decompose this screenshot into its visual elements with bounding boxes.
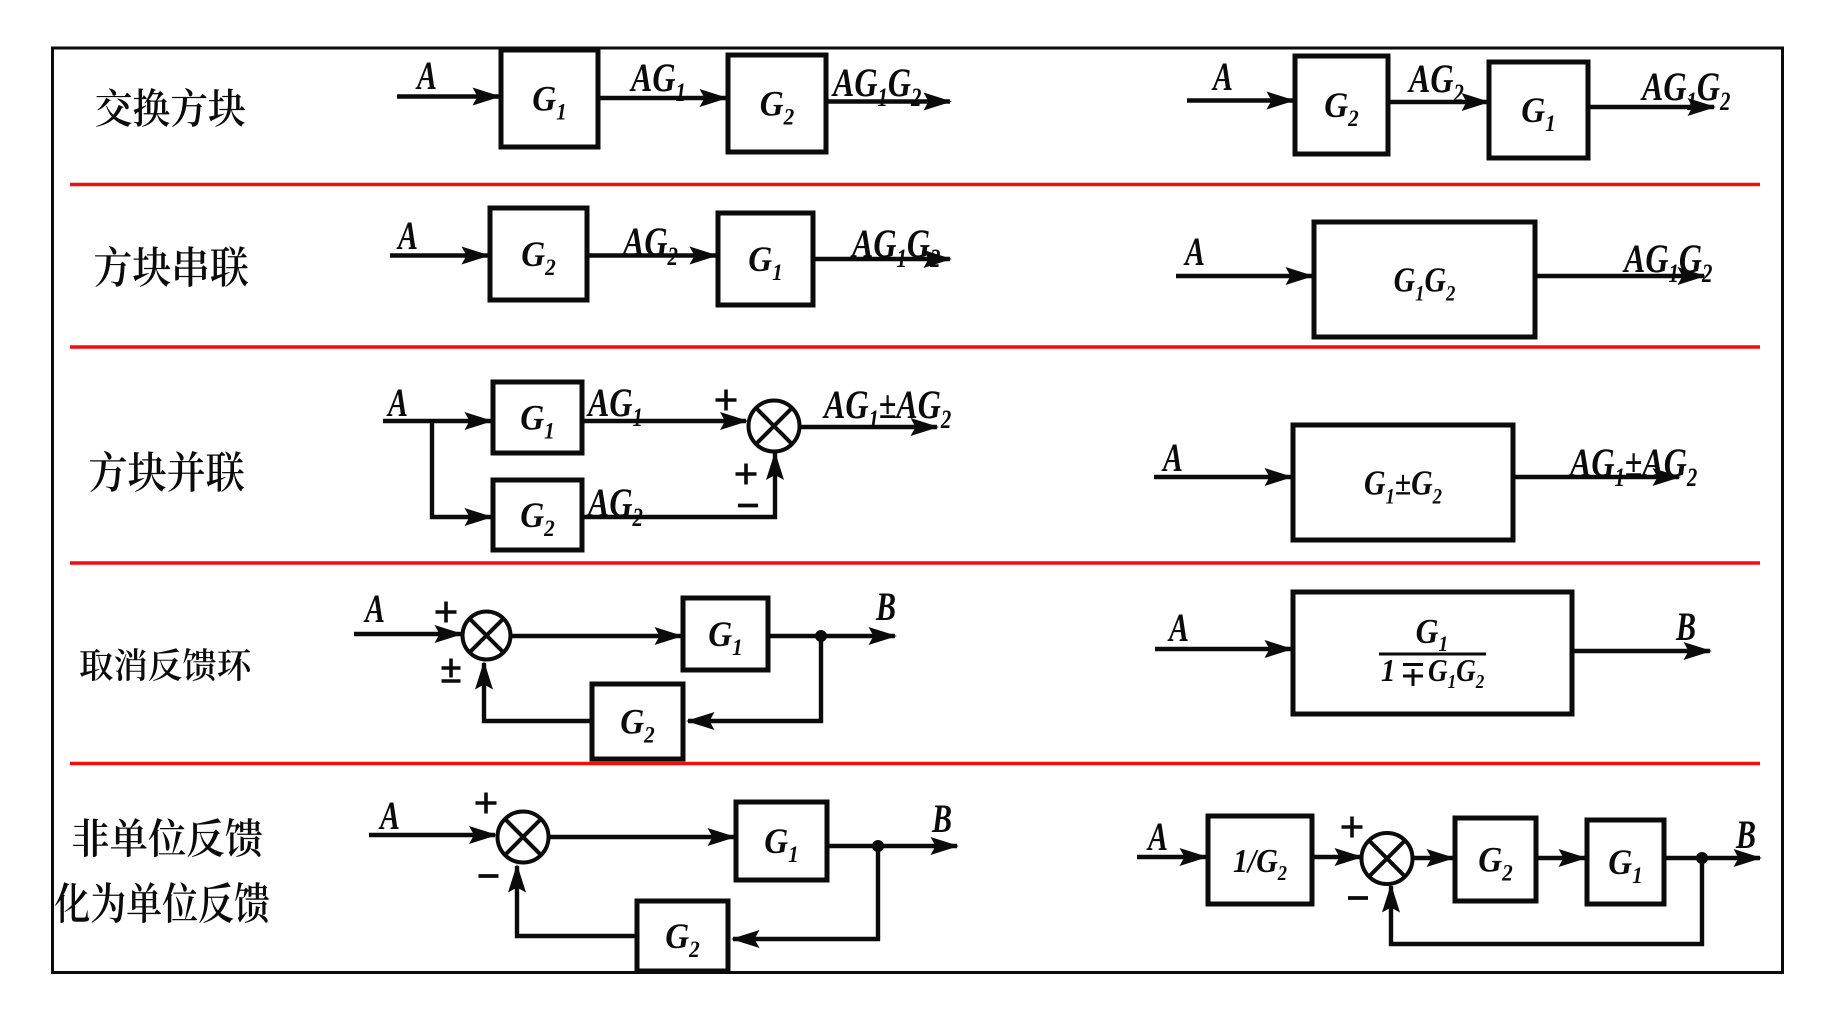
wire A to G2 (row2 left)	[390, 253, 488, 257]
node A (row2 right)	[1183, 229, 1205, 274]
row 5 label line 1: non-unity feedback	[73, 818, 262, 857]
net label AG1G2 (row1 right)	[1640, 65, 1730, 117]
arrowhead into G1 (row1 right)	[1462, 93, 1491, 111]
net label AG1 plus-minus AG2 (row3 left)	[822, 383, 951, 435]
svg-text:A: A	[1146, 814, 1168, 859]
svg-text:AG1G2: AG1G2	[831, 61, 921, 113]
arrowhead up into summing junction (row5 right)	[1382, 884, 1400, 913]
arrowhead into 1/G2 block (row5 right)	[1180, 848, 1209, 866]
junction node dot (row5 left)	[872, 840, 884, 852]
svg-text:G1±G2: G1±G2	[1364, 464, 1442, 509]
net label AG2 (row1 right)	[1407, 57, 1464, 109]
block G2 (row5 left)	[637, 901, 728, 971]
svg-text:AG1: AG1	[586, 381, 643, 433]
node B (row5 left)	[931, 796, 952, 841]
summing junction (row5 left)	[498, 812, 549, 863]
wire G2 to G1 (row5 right)	[1536, 856, 1585, 860]
arrowhead into G2 (row5 right)	[1427, 849, 1456, 867]
node A (row4 right)	[1167, 605, 1189, 650]
wire A to block (row3 right)	[1154, 475, 1291, 479]
red divider line 3	[70, 561, 1760, 564]
arrowhead into G2 right side (row5 left)	[731, 930, 760, 948]
block G1G2 (row2 right)	[1314, 222, 1535, 337]
row 4 label: eliminate feedback loop	[80, 648, 250, 681]
fraction denominator G1G2 (row4 right)	[1428, 654, 1484, 693]
node A (row1 right)	[1211, 54, 1233, 99]
node A (row5 right)	[1146, 814, 1168, 859]
wire G2 to G1 (row2 left)	[587, 253, 716, 257]
svg-text:AG1G2: AG1G2	[1622, 237, 1712, 289]
wire output (row2 left)	[813, 257, 950, 261]
arrowhead up into summing junction (row3 left)	[766, 452, 784, 481]
block G2 (row1 right)	[1295, 56, 1388, 154]
arrowhead into summing junction (row5 left)	[469, 826, 498, 844]
red divider line 2	[70, 345, 1760, 348]
wire G2 to summing junction (row3 left)	[582, 453, 775, 517]
block G2 (row1 left)	[728, 55, 826, 152]
output arrowhead (row5 left)	[931, 837, 960, 855]
plus sign (row5 right)	[1342, 817, 1363, 838]
row 2 label: blocks in series	[95, 246, 248, 287]
minus sign (row5 left)	[479, 874, 499, 878]
arrowhead into G2 (row1 right)	[1267, 92, 1296, 110]
node A (row3 right)	[1161, 435, 1183, 480]
net label AG1G2 (row1 left)	[831, 61, 921, 113]
node A (row1 left)	[415, 53, 437, 98]
arrowhead into G1 (row3 left)	[465, 412, 494, 430]
block G2 (row2 left)	[490, 208, 587, 300]
arrowhead up into summing junction (row4 left)	[475, 661, 493, 690]
block G1 (row2 left)	[718, 213, 813, 305]
plus-minus sign (row4 left)	[442, 659, 461, 682]
net label AG1G2 (row2 right)	[1622, 237, 1712, 289]
arrowhead into G1 (row5 right)	[1559, 849, 1588, 867]
output arrowhead (row3 right)	[1653, 468, 1682, 486]
node B (row4 right)	[1675, 604, 1696, 649]
summing junction (row5 right)	[1362, 833, 1413, 884]
block G2 (row4 left)	[592, 684, 683, 759]
junction node dot (row4 left)	[815, 630, 827, 642]
arrowhead into summing junction (row3 left)	[720, 412, 749, 430]
output arrowhead (row1 left)	[924, 93, 953, 111]
plus sign (row4 left)	[436, 602, 457, 623]
wire G2 to summing junction (row5 left)	[517, 866, 637, 936]
wire output (row3 right)	[1513, 475, 1679, 479]
net label AG2 (row3 left)	[586, 481, 643, 533]
plus sign (row5 left)	[476, 793, 497, 814]
svg-text:A: A	[378, 793, 400, 838]
wire output (row4 left)	[768, 634, 895, 638]
red divider line 4	[70, 762, 1760, 765]
svg-text:AG1±AG2: AG1±AG2	[822, 383, 951, 435]
wire A to summing junction (row5 left)	[369, 833, 495, 837]
arrowhead into G1 (row2 left)	[690, 247, 719, 265]
svg-text:AG2: AG2	[621, 220, 678, 272]
wire A to 1/G2 block (row5 right)	[1137, 855, 1206, 859]
net label AG1 plus-minus AG2 (row3 right)	[1568, 441, 1697, 493]
output arrowhead (row2 right)	[1678, 267, 1707, 285]
plus sign upper (row3 left)	[716, 390, 737, 411]
node B (row5 right)	[1735, 812, 1756, 857]
junction node dot (row5 right)	[1696, 852, 1708, 864]
wire G2 to G1 (row1 right)	[1388, 100, 1488, 104]
svg-text:A: A	[1161, 435, 1183, 480]
wire A to block (row2 right)	[1176, 274, 1312, 278]
wire summing junction to G1 (row4 left)	[509, 634, 681, 638]
arrowhead into block (row4 right)	[1265, 640, 1294, 658]
block closed-loop transfer function (row4 right)	[1293, 592, 1572, 714]
block G1 plus-minus G2 (row3 right)	[1293, 425, 1513, 540]
fraction numerator G1 (row4 right)	[1416, 613, 1449, 657]
node A (row4 left)	[363, 586, 385, 631]
row 3 label: blocks in parallel	[90, 451, 244, 492]
output arrowhead (row5 right)	[1734, 849, 1763, 867]
svg-text:A: A	[1211, 54, 1233, 99]
block G1 (row1 right)	[1489, 62, 1588, 158]
svg-text:A: A	[386, 380, 408, 425]
wire A to G2 (row1 right)	[1187, 98, 1293, 102]
svg-text:A: A	[1183, 229, 1205, 274]
arrowhead into G1 (row1 left)	[473, 88, 502, 106]
svg-text:AG2: AG2	[586, 481, 643, 533]
wire output (row2 right)	[1535, 274, 1704, 278]
node A (row5 left)	[378, 793, 400, 838]
svg-text:A: A	[1167, 605, 1189, 650]
wire A main (row3 left)	[383, 419, 491, 423]
arrowhead into G2 (row1 left)	[700, 89, 729, 107]
svg-text:AG1±AG2: AG1±AG2	[1568, 441, 1697, 493]
arrowhead into block (row3 right)	[1265, 468, 1294, 486]
svg-text:B: B	[1735, 812, 1756, 857]
node B (row4 left)	[875, 584, 896, 629]
arrowhead into G2 (row3 left)	[465, 508, 494, 526]
arrowhead into G1 (row5 left)	[708, 828, 737, 846]
node A (row2 left)	[396, 213, 418, 258]
block 1/G2 (row5 right)	[1208, 816, 1312, 904]
wire output (row5 left)	[827, 844, 957, 848]
wire output (row3 left)	[800, 425, 938, 429]
minus sign (row3 left)	[738, 504, 758, 508]
wire G2 to summing junction (row4 left)	[484, 663, 592, 721]
block G2 (row5 right)	[1455, 818, 1536, 901]
arrowhead into G2 right side (row4 left)	[686, 712, 715, 730]
arrowhead into G2 (row2 left)	[462, 247, 491, 265]
row 1 label: swap blocks	[96, 88, 245, 127]
arrowhead into G1 (row4 left)	[655, 627, 684, 645]
row 5 label line 2: to unity feedback	[55, 882, 269, 923]
net label AG1 (row1 left)	[629, 56, 686, 108]
wire G1 to summing junction (row3 left)	[582, 419, 746, 423]
arrowhead into summing junction (row5 right)	[1335, 848, 1364, 866]
minus sign (row5 right)	[1348, 896, 1368, 900]
block G2 (row3 left)	[493, 480, 582, 550]
wire output (row4 right)	[1572, 649, 1710, 653]
wire A to block (row4 right)	[1155, 647, 1291, 651]
wire feedback from node to G2 (row4 left)	[688, 636, 821, 721]
block G1 (row3 left)	[493, 382, 582, 453]
node A (row3 left)	[386, 380, 408, 425]
wire 1/G2 to summing junction (row5 right)	[1312, 855, 1361, 859]
arrowhead into block (row2 right)	[1286, 267, 1315, 285]
net label AG1 (row3 left)	[586, 381, 643, 433]
svg-text:A: A	[396, 213, 418, 258]
wire feedback from node to G2 (row5 left)	[733, 846, 878, 939]
wire A to G1 (row1 left)	[397, 94, 499, 98]
wire A to summing junction (row4 left)	[354, 632, 461, 636]
block G1 (row5 left)	[736, 802, 827, 880]
wire output (row1 right)	[1588, 105, 1714, 109]
block G1 (row4 left)	[683, 598, 768, 670]
svg-text:B: B	[1675, 604, 1696, 649]
plus sign lower (row3 left)	[736, 464, 757, 485]
net label AG2 (row2 left)	[621, 220, 678, 272]
svg-text:1: 1	[1381, 653, 1395, 689]
svg-text:B: B	[931, 796, 952, 841]
wire summing junction to G2 (row5 right)	[1413, 856, 1453, 860]
wire G1 to G2 (row1 left)	[598, 96, 726, 100]
output arrowhead (row4 right)	[1684, 642, 1713, 660]
wire feedback from node to summing junction (row5 right)	[1391, 858, 1702, 944]
red divider line 1	[70, 183, 1760, 186]
wire output (row5 right)	[1664, 856, 1760, 860]
summing junction (row3 left)	[749, 401, 800, 452]
svg-text:B: B	[875, 584, 896, 629]
svg-text:A: A	[363, 586, 385, 631]
wire branch down (row3 left)	[432, 421, 491, 517]
output arrowhead (row1 right)	[1688, 98, 1717, 116]
fraction bar (row4 right)	[1379, 653, 1486, 656]
wire output (row1 left)	[825, 99, 950, 103]
arrowhead into summing junction (row4 left)	[435, 625, 464, 643]
net label AG1G2 (row2 left)	[850, 222, 940, 274]
output arrowhead (row2 left)	[924, 250, 953, 268]
output arrowhead (row4 left)	[869, 627, 898, 645]
arrowhead up into summing junction (row5 left)	[508, 864, 526, 893]
minus-plus sign in denominator (row4 right)	[1403, 665, 1423, 687]
output arrowhead (row3 left)	[911, 418, 940, 436]
summing junction (row4 left)	[463, 612, 511, 660]
fraction denominator digit 1 (row4 right)	[1381, 653, 1395, 689]
wire summing junction to G1 (row5 left)	[549, 835, 735, 839]
svg-text:A: A	[415, 53, 437, 98]
block G1 (row5 right)	[1587, 820, 1664, 904]
block G1 (row1 left)	[501, 50, 598, 147]
